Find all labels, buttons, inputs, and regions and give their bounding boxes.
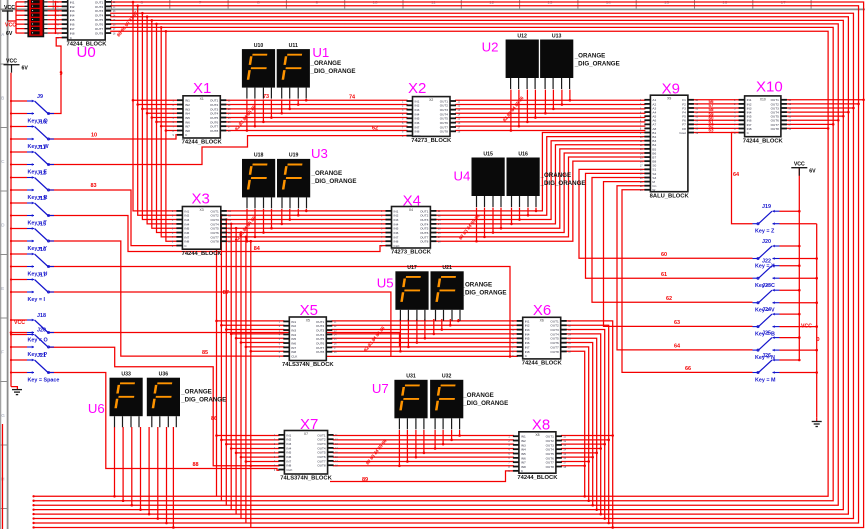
svg-text:U17: U17 — [407, 265, 417, 271]
svg-text:X6: X6 — [533, 302, 551, 319]
buffer U0 74244_BLOCK — [68, 0, 106, 40]
svg-text:9: 9 — [60, 71, 63, 77]
svg-text:U1: U1 — [312, 45, 329, 60]
svg-text:_DIG_ORANGE: _DIG_ORANGE — [461, 290, 507, 297]
svg-text:OUT6: OUT6 — [95, 23, 104, 27]
svg-text:X4: X4 — [409, 208, 413, 212]
svg-text:CLK: CLK — [394, 244, 401, 248]
svg-text:Key = M: Key = M — [755, 377, 776, 383]
svg-text:_ORANGE: _ORANGE — [311, 170, 343, 177]
svg-text:63: 63 — [709, 128, 715, 133]
wire bundle U0 bus to X1 and X3 inputs — [133, 2, 177, 211]
svg-text:86: 86 — [211, 416, 217, 422]
ground left — [12, 389, 22, 391]
switch J20 Key = P — [27, 334, 34, 336]
svg-text:OUT8: OUT8 — [211, 240, 220, 244]
right key output stubs — [780, 210, 800, 212]
svg-text:74LS374N_BLOCK: 74LS374N_BLOCK — [282, 362, 334, 368]
wire key P hook around U6, net 86 — [48, 347, 279, 466]
svg-text:CLK: CLK — [286, 468, 293, 472]
svg-text:X3: X3 — [200, 208, 204, 212]
switch J23 Key = V — [773, 289, 780, 291]
svg-text:66: 66 — [685, 366, 691, 372]
svg-text:X9: X9 — [662, 81, 680, 98]
svg-text:OUT1: OUT1 — [95, 0, 104, 4]
svg-text:J10: J10 — [37, 119, 46, 125]
svg-text:X2: X2 — [408, 80, 426, 97]
svg-text:_DIG_ORANGE: _DIG_ORANGE — [462, 400, 508, 407]
svg-text:_ORANGE: _ORANGE — [462, 392, 494, 399]
svg-text:J20: J20 — [762, 239, 771, 245]
svg-text:74244_BLOCK: 74244_BLOCK — [182, 251, 223, 257]
switch J26 Key = M — [773, 359, 780, 361]
svg-text:60: 60 — [661, 252, 667, 258]
left key feed stubs — [11, 100, 27, 102]
ground collector right keys — [816, 224, 818, 418]
wire U1 display pins to rowA — [246, 99, 248, 130]
wire key O — [48, 333, 400, 348]
svg-text:X7: X7 — [300, 416, 318, 433]
svg-text:J16: J16 — [37, 247, 46, 253]
switch J11 Key = E — [27, 151, 34, 153]
svg-text:X8: X8 — [532, 417, 550, 434]
svg-text:U7: U7 — [372, 381, 389, 396]
svg-text:_DIG_ORANGE: _DIG_ORANGE — [311, 178, 357, 185]
svg-text:X8: X8 — [535, 433, 539, 437]
svg-text:85: 85 — [202, 350, 208, 356]
svg-text:OUT8: OUT8 — [420, 240, 429, 244]
wire DIP to U0 — [55, 2, 57, 33]
svg-text:OUT8: OUT8 — [317, 464, 326, 468]
svg-text:OUT5: OUT5 — [95, 18, 104, 22]
svg-text:14: 14 — [606, 0, 612, 5]
svg-text:_DIG_ORANGE: _DIG_ORANGE — [180, 397, 226, 404]
svg-text:J17: J17 — [37, 272, 46, 278]
wire key Y to X5 CLK, net 85 — [48, 241, 284, 356]
svg-text:VCC: VCC — [5, 23, 16, 29]
wire key Q to U0 C pin — [48, 38, 63, 114]
svg-text:17: 17 — [781, 0, 787, 5]
svg-text:IN8: IN8 — [70, 31, 75, 35]
svg-text:OUT8: OUT8 — [546, 465, 555, 469]
svg-text:OUT8: OUT8 — [95, 31, 104, 35]
svg-text:64: 64 — [733, 172, 740, 178]
svg-text:87: 87 — [223, 290, 229, 296]
svg-text:IN1: IN1 — [70, 0, 75, 4]
svg-text:Cout: Cout — [679, 131, 686, 135]
svg-text:61: 61 — [661, 272, 667, 278]
svg-text:6V: 6V — [809, 169, 816, 175]
wire X10 C pin to key Z — [732, 133, 753, 224]
svg-text:64: 64 — [674, 344, 681, 350]
svg-text:U6: U6 — [88, 401, 105, 416]
svg-text:12: 12 — [489, 0, 495, 5]
svg-text:J11: J11 — [37, 145, 46, 151]
ground right — [816, 417, 818, 421]
svg-text:74: 74 — [349, 95, 356, 101]
register X7 74LS374N_BLOCK — [284, 431, 327, 475]
svg-text:62: 62 — [372, 126, 378, 132]
VCC rail right keys — [798, 168, 800, 360]
svg-text:X9: X9 — [667, 97, 671, 101]
svg-text:74244_BLOCK: 74244_BLOCK — [517, 475, 558, 481]
svg-text:J18: J18 — [37, 313, 46, 319]
svg-text:J13: J13 — [37, 196, 46, 202]
svg-text:J25: J25 — [762, 330, 771, 336]
svg-text:W: W — [652, 188, 655, 192]
wire 89 to X8 C pin — [330, 471, 514, 482]
wire key E to X2 CLK — [48, 136, 408, 165]
switch J19 Key = Z — [773, 210, 780, 212]
svg-text:VCC: VCC — [14, 320, 25, 326]
switch J24 Key = B — [773, 313, 780, 315]
wire rowA3 X9 to X10 — [693, 99, 740, 101]
svg-text:OUT8: OUT8 — [316, 350, 325, 354]
sheet border frame — [0, 8, 865, 10]
switch J12 Key = R — [27, 177, 34, 179]
wire bundle X6 outputs down to bottom bus with X8 output taps — [566, 321, 613, 528]
wire key U to X6 C pin — [48, 267, 510, 357]
svg-text:X6: X6 — [540, 319, 544, 323]
svg-text:74244_BLOCK: 74244_BLOCK — [743, 138, 784, 144]
svg-text:_DIG_ORANGE: _DIG_ORANGE — [310, 68, 356, 75]
wire rowA2 X2 to X9 — [455, 99, 645, 101]
svg-text:J21: J21 — [37, 353, 46, 359]
svg-text:U12: U12 — [517, 33, 527, 39]
svg-text:IN2: IN2 — [70, 5, 75, 9]
svg-text:U3: U3 — [311, 146, 328, 161]
svg-text:U10: U10 — [254, 43, 264, 49]
svg-text:CLK: CLK — [291, 354, 298, 358]
svg-text:J26: J26 — [762, 353, 771, 359]
switch J22 Key = C — [773, 265, 780, 267]
svg-text:Key = Z: Key = Z — [755, 229, 775, 235]
svg-text:IN3: IN3 — [70, 9, 75, 13]
wire X10 outputs to right vertical bus — [786, 99, 864, 101]
svg-text:A: A — [1, 32, 4, 37]
switch J10 Key = W — [27, 126, 34, 128]
svg-text:74244_BLOCK: 74244_BLOCK — [182, 140, 223, 146]
svg-text:10: 10 — [372, 0, 378, 5]
svg-text:IN4: IN4 — [70, 14, 75, 18]
svg-text:88: 88 — [193, 462, 199, 468]
register X4 74273_BLOCK — [392, 207, 431, 249]
svg-text:83: 83 — [91, 183, 97, 189]
buffer X3 74244_BLOCK — [182, 207, 220, 250]
svg-text:OUT8: OUT8 — [771, 127, 780, 131]
svg-text:VCC: VCC — [4, 5, 15, 11]
svg-text:U19: U19 — [289, 153, 299, 159]
svg-text:J20: J20 — [37, 327, 46, 333]
svg-text:VCC: VCC — [801, 324, 812, 330]
buffer X1 74244_BLOCK — [183, 96, 220, 138]
wire U3 display pins to rowB — [246, 209, 248, 241]
svg-text:IN7: IN7 — [70, 27, 75, 31]
svg-text:IN6: IN6 — [70, 23, 75, 27]
switch J16 Key = U — [27, 253, 34, 255]
svg-text:8ALU_BLOCK: 8ALU_BLOCK — [650, 193, 690, 199]
svg-text:X1: X1 — [200, 97, 204, 101]
switch J25 Key = N — [773, 337, 780, 339]
svg-text:0: 0 — [817, 337, 820, 343]
wire key W to X1 C pin — [48, 135, 178, 139]
svg-text:J19: J19 — [762, 204, 771, 210]
buffer X6 74244_BLOCK — [523, 317, 561, 359]
svg-text:U2: U2 — [482, 40, 499, 55]
svg-text:U13: U13 — [552, 33, 562, 39]
wire U6 display pins to bottom bus — [114, 427, 116, 496]
svg-text:63: 63 — [674, 320, 680, 326]
svg-text:U36: U36 — [159, 372, 169, 378]
wire key R to X3 C pin — [48, 190, 177, 246]
svg-text:Key = I: Key = I — [28, 297, 46, 303]
buffer X8 74244_BLOCK — [519, 432, 556, 473]
svg-text:U15: U15 — [483, 151, 493, 157]
svg-text:_ORANGE: _ORANGE — [310, 60, 342, 67]
switch J17 Key = I — [27, 279, 34, 281]
svg-text:74273_BLOCK: 74273_BLOCK — [391, 250, 432, 256]
svg-text:U4: U4 — [454, 169, 471, 184]
svg-text:J15: J15 — [37, 221, 46, 227]
svg-text:OUT8: OUT8 — [210, 129, 219, 133]
svg-text:_ORANGE: _ORANGE — [540, 172, 572, 179]
svg-text:_ORANGE: _ORANGE — [461, 282, 493, 289]
svg-text:OUT4: OUT4 — [95, 14, 104, 18]
svg-text:X5: X5 — [300, 302, 318, 319]
wire U2 display pins to rowA2 — [510, 90, 512, 131]
svg-text:74244_BLOCK: 74244_BLOCK — [522, 361, 563, 367]
svg-text:U21: U21 — [442, 265, 452, 271]
svg-text:11: 11 — [431, 0, 436, 5]
svg-text:U33: U33 — [121, 372, 131, 378]
switch J15 Key = Y — [27, 228, 34, 230]
svg-text:74LS374N_BLOCK: 74LS374N_BLOCK — [280, 476, 332, 482]
switch J9 Key = Q — [27, 100, 34, 102]
svg-text:X10: X10 — [756, 79, 783, 96]
svg-text:_DIG_ORANGE: _DIG_ORANGE — [574, 61, 620, 68]
svg-text:16: 16 — [722, 0, 728, 5]
svg-text:J23: J23 — [762, 283, 771, 289]
wire rowD X7 to X8 — [333, 435, 514, 437]
svg-text:X10: X10 — [760, 97, 766, 101]
wire X4 outputs up to X9 B inputs — [435, 133, 646, 211]
svg-text:13: 13 — [547, 0, 553, 5]
wire rowB X3 to X4 — [225, 210, 387, 212]
svg-text:VCC: VCC — [794, 162, 805, 168]
svg-text:X1: X1 — [193, 80, 211, 97]
svg-text:OUT3: OUT3 — [95, 9, 104, 13]
wire left key bus — [10, 73, 12, 387]
svg-text:62: 62 — [666, 296, 672, 302]
wire rowA X1 to X2 — [225, 99, 407, 101]
svg-text:U32: U32 — [442, 374, 452, 380]
wire U4 display pins to rowB2 — [476, 208, 478, 242]
ALU X9 8ALU_BLOCK — [650, 95, 688, 192]
svg-text:_DIG_ORANGE: _DIG_ORANGE — [540, 180, 586, 187]
svg-text:U0: U0 — [84, 0, 88, 1]
svg-text:OUT7: OUT7 — [95, 27, 104, 31]
svg-text:U31: U31 — [406, 374, 416, 380]
switch J13 Key = T — [27, 202, 34, 204]
svg-text:U11: U11 — [289, 43, 298, 49]
svg-text:6V: 6V — [6, 31, 13, 37]
wire key I, net 87 — [48, 292, 391, 356]
svg-text:74273_BLOCK: 74273_BLOCK — [411, 138, 452, 144]
svg-text:U18: U18 — [254, 153, 264, 159]
switch J21 Key = Space — [27, 359, 34, 361]
svg-text:E: E — [1, 286, 4, 291]
svg-text:X7: X7 — [304, 432, 308, 436]
switch J20 Key = X — [773, 245, 780, 247]
svg-text:IN5: IN5 — [70, 18, 75, 22]
wire U5 display pins to rowC — [399, 319, 401, 351]
DIP switch S1 — [28, 0, 43, 37]
svg-text:U0: U0 — [77, 44, 96, 61]
svg-text:X5: X5 — [306, 318, 310, 322]
buffer X10 74244_BLOCK — [745, 96, 781, 137]
svg-text:U16: U16 — [518, 151, 528, 157]
wire X9 control pins to right key switches — [579, 169, 753, 258]
wire key T to X4 CLK — [48, 216, 387, 252]
svg-text:VCC: VCC — [6, 59, 17, 65]
svg-text:OUT8: OUT8 — [550, 350, 559, 354]
svg-text:G: G — [1, 413, 5, 418]
svg-text:X2: X2 — [429, 98, 433, 102]
register X5 74LS374N_BLOCK — [289, 317, 326, 361]
svg-text:_ORANGE: _ORANGE — [180, 389, 212, 396]
register X2 74273_BLOCK — [413, 97, 451, 137]
svg-text:F: F — [1, 350, 4, 355]
wire left edge vertical — [2, 424, 4, 529]
svg-text:B: B — [1, 96, 4, 101]
svg-text:Key = Space: Key = Space — [28, 377, 60, 383]
svg-text:15: 15 — [664, 0, 670, 5]
wire rowC X5 to X6 — [332, 320, 518, 322]
wire key Space to X7 CLK — [48, 373, 279, 471]
switch J18 Key = O — [27, 319, 34, 321]
svg-text:6V: 6V — [22, 66, 29, 72]
svg-text:U5: U5 — [377, 276, 394, 291]
svg-text:OUT8: OUT8 — [440, 130, 449, 134]
wire bundle rowB down to X5 X7 inputs and bottom bus — [216, 211, 218, 496]
wire U7 display pins to rowD — [398, 430, 400, 466]
wire DIP left feeds — [15, 2, 17, 33]
svg-text:84: 84 — [254, 246, 261, 252]
svg-text:X3: X3 — [192, 191, 210, 208]
svg-text:OUT2: OUT2 — [95, 5, 104, 9]
svg-text:J9: J9 — [37, 94, 43, 100]
svg-text:10: 10 — [91, 133, 97, 139]
svg-text:J24: J24 — [762, 307, 771, 313]
svg-text:J22: J22 — [762, 259, 771, 265]
svg-text:_ORANGE: _ORANGE — [574, 53, 606, 60]
svg-text:J12: J12 — [37, 170, 46, 176]
